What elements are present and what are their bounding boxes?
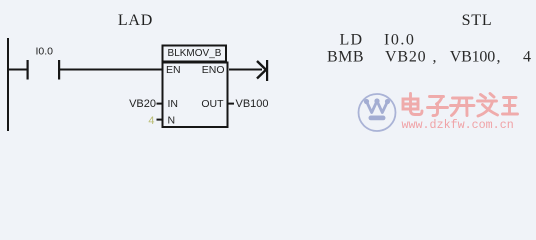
svg-text:OUT: OUT [201,98,224,110]
block title box [163,46,227,62]
contact I0.0 right bar [58,60,60,80]
watermark hanzi dian [403,94,422,115]
pin tick IN [157,103,163,105]
left power rail [7,38,9,131]
wire: ENO to arrow [229,69,262,71]
watermark hanzi kai [451,98,475,116]
watermark W mark base bar [369,116,386,121]
pin tick N [157,119,163,121]
svg-text:I0.0: I0.0 [36,46,54,58]
svg-text:VB20: VB20 [129,98,156,110]
watermark W mark strokes [367,101,388,113]
arrow end bar [266,60,268,81]
svg-text:VB100: VB100 [236,98,269,110]
wire: rail to contact [9,69,27,71]
svg-text:LAD: LAD [118,12,153,29]
watermark hanzi zi [428,97,448,116]
wire: contact to block EN [60,69,162,71]
svg-text:www.dzkfw.com.cn: www.dzkfw.com.cn [402,118,514,132]
watermark hanzi wang [503,98,518,115]
svg-text:IN: IN [168,98,179,110]
pin tick OUT [229,103,235,105]
block body box [163,63,228,128]
svg-text:BLKMOV_B: BLKMOV_B [168,48,222,59]
svg-text:ENO: ENO [202,64,225,76]
watermark logo circle [359,94,396,131]
svg-text:N: N [168,115,176,127]
svg-text:EN: EN [166,64,181,76]
contact I0.0 left bar [27,60,29,80]
watermark W mark dots [364,98,390,104]
svg-text:4: 4 [148,115,154,127]
arrow head [257,61,266,79]
svg-text:STL: STL [462,12,493,29]
watermark hanzi fa [478,94,498,117]
